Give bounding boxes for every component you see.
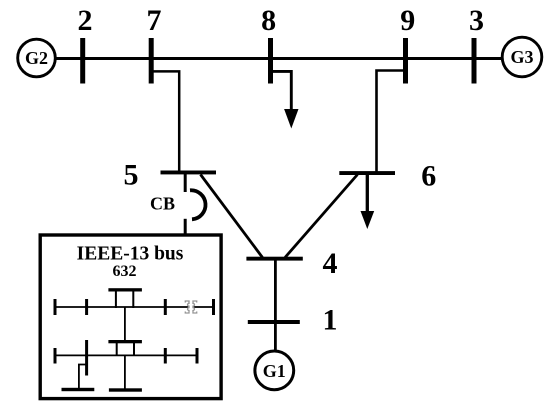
- bus 1: [248, 320, 300, 324]
- svg-text:IEEE-13 bus: IEEE-13 bus: [77, 243, 184, 264]
- bus 7: [149, 38, 154, 84]
- node tick lower feeder tall: [85, 340, 88, 376]
- circuit breaker CB arc: [190, 190, 206, 219]
- bus 4: [246, 257, 302, 261]
- svg-text:G2: G2: [25, 48, 48, 68]
- svg-text:9: 9: [400, 4, 415, 37]
- wire: middle bar right drop: [133, 343, 135, 356]
- bus 6: [339, 171, 395, 175]
- circuit breaker CB upper stub: [184, 174, 187, 192]
- node tick upper feeder second: [85, 299, 88, 315]
- bottom-center bus bar: [109, 388, 142, 391]
- wire: upper feeder line right of transformer: [194, 306, 214, 308]
- svg-text:632: 632: [113, 263, 137, 280]
- middle bus bar (node 671): [108, 340, 141, 343]
- wire: bus 9 to bus 6: [377, 71, 406, 173]
- wire: 632 bar left drop: [115, 291, 117, 308]
- bus 2: [80, 38, 85, 84]
- wire: middle bar left drop: [116, 343, 118, 356]
- generator G2: [18, 39, 56, 77]
- node tick upper feeder right end: [212, 299, 215, 315]
- bus 5: [161, 171, 217, 175]
- transformer XFM-1 right winding (gray): [193, 301, 197, 313]
- generator G3: [502, 37, 542, 77]
- wire: bus 1 to G1: [274, 324, 277, 352]
- bus 3: [472, 38, 477, 84]
- wire: vertical from upper feeder to middle bar: [124, 307, 126, 341]
- node tick upper feeder third: [164, 299, 167, 315]
- circuit breaker CB lower stub: [184, 219, 187, 235]
- wire: bus 7 to bus 5: [151, 71, 179, 172]
- bus 9: [403, 38, 408, 84]
- wire: vertical from lower feeder to bottom bar: [124, 355, 126, 389]
- node tick upper feeder far left: [54, 299, 57, 315]
- bus 8: [268, 38, 273, 84]
- svg-text:1: 1: [323, 304, 338, 337]
- node 632 bus bar (top): [108, 288, 141, 291]
- svg-text:CB: CB: [150, 194, 175, 214]
- svg-text:6: 6: [421, 160, 436, 193]
- bottom-left bus bar: [62, 388, 95, 391]
- wire: diagonal bus 5 to bus 4: [201, 175, 263, 258]
- wire: bus 4 to bus 1: [274, 260, 277, 322]
- wire: 632 bar right drop: [132, 291, 134, 308]
- load arrow at bus 6: [361, 175, 375, 229]
- wire: upper feeder line left: [55, 306, 188, 308]
- svg-text:4: 4: [323, 247, 338, 280]
- svg-text:G1: G1: [263, 361, 286, 381]
- svg-text:2: 2: [78, 4, 93, 37]
- wire: jog from tall tick to bottom-left bar: [79, 365, 87, 389]
- wire: main 230kV trunk from G2 to G3: [55, 57, 502, 60]
- svg-text:8: 8: [261, 4, 276, 37]
- svg-text:3: 3: [469, 4, 484, 37]
- node tick lower feeder third: [164, 348, 167, 364]
- svg-text:G3: G3: [510, 47, 533, 67]
- svg-text:7: 7: [147, 4, 162, 37]
- wire: diagonal bus 6 to bus 4: [285, 175, 358, 258]
- load arrow at bus 8: [271, 71, 299, 128]
- generator G1: [255, 351, 294, 390]
- node tick lower feeder far left: [54, 348, 57, 364]
- transformer XFM-1 left winding (gray): [185, 301, 189, 313]
- wire: lower feeder line: [55, 354, 197, 356]
- node tick lower feeder right end: [196, 348, 199, 364]
- svg-text:5: 5: [124, 159, 139, 192]
- IEEE-13 bus subsystem box: [40, 235, 221, 399]
